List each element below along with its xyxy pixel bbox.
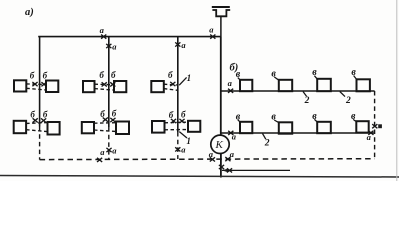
- svg-text:а: а: [228, 78, 233, 88]
- svg-text:б: б: [99, 70, 104, 80]
- junction x loop bottom start: [228, 131, 233, 135]
- hook lead B3: [314, 119, 317, 122]
- dashed wire row2 group3 upper: [165, 121, 189, 124]
- svg-text:а: а: [230, 149, 235, 159]
- bottom page rule: [0, 176, 399, 178]
- junction x row2 group1 right: [41, 118, 46, 122]
- junction x row1 group3: [170, 82, 175, 86]
- svg-text:а): а): [25, 7, 34, 18]
- detector row2 group1 left: [14, 121, 26, 133]
- top feed wire of part a: [38, 36, 221, 38]
- junction x on V3: [175, 42, 180, 46]
- dashed wire row2 group2 lower: [94, 130, 116, 132]
- svg-text:а: а: [100, 147, 105, 157]
- leader line to detector item 1: [179, 77, 186, 85]
- hook lead B2: [274, 120, 279, 123]
- svg-text:б: б: [43, 109, 48, 119]
- bell B1 top bar: [212, 6, 230, 8]
- dashed wire row2 group1 upper: [26, 122, 47, 125]
- right page edge scan line: [396, 0, 398, 181]
- loop detector B1: [240, 122, 252, 133]
- detector row2 group3 right: [188, 121, 200, 132]
- bell B1 cup body: [212, 10, 230, 16]
- svg-text:а: а: [209, 25, 214, 35]
- svg-text:2: 2: [304, 96, 310, 106]
- branch wire V1 dashed return: [39, 127, 41, 160]
- leader line to detector item 1 lower: [179, 132, 187, 138]
- dashed wire row2 group3 lower: [165, 129, 189, 131]
- detector row1 group1 left: [14, 80, 26, 91]
- leader slash wire 2 bottom: [263, 134, 266, 140]
- svg-text:1: 1: [187, 73, 192, 83]
- svg-text:а: а: [181, 40, 186, 50]
- svg-text:б: б: [112, 109, 117, 119]
- detector row2 group2 left: [82, 122, 94, 133]
- riser wire from bell to receiver K: [220, 37, 222, 136]
- loop bottom wire: [221, 132, 375, 134]
- loop detector B4: [356, 121, 368, 132]
- junction x on bottom return near V2: [97, 158, 102, 162]
- loop top wire: [222, 90, 375, 92]
- loop detector S2: [279, 80, 292, 91]
- bell B1 stem wire: [220, 16, 222, 36]
- branch wire V1 solid: [39, 37, 41, 127]
- dashed wire row1 group2 upper: [95, 83, 115, 86]
- junction x row2 group3 right: [179, 119, 184, 123]
- junction x row2 group2 right: [110, 118, 115, 122]
- svg-text:а: а: [367, 132, 372, 142]
- hook lead S1: [238, 78, 241, 81]
- dashed wire row1 group1 upper: [26, 83, 46, 86]
- loop detector S4: [357, 79, 370, 91]
- junction x on top wire near node a: [101, 35, 106, 39]
- receiver station K circle: [211, 135, 229, 153]
- junction x on wire below K: [219, 165, 224, 169]
- leader slash wire 2 top second: [340, 92, 345, 97]
- svg-text:б: б: [43, 70, 48, 80]
- bottom dashed return wire: [40, 158, 375, 161]
- junction x on V2 return: [106, 148, 111, 152]
- dashed wire row1 group2 lower: [95, 89, 115, 91]
- svg-text:К: К: [215, 139, 224, 151]
- svg-text:б: б: [168, 70, 173, 80]
- junction x loop bottom end: [368, 131, 373, 135]
- svg-text:а: а: [232, 132, 237, 142]
- branch wire V2 dashed return: [108, 127, 110, 159]
- junction x on right return: [372, 124, 377, 128]
- junction x row1 group1 right: [41, 82, 46, 86]
- hook lead S4: [354, 76, 357, 80]
- svg-text:б: б: [30, 70, 35, 80]
- junction x row1 group1 left: [32, 82, 37, 86]
- dashed wire row1 group1 lower: [26, 88, 46, 90]
- loop detector S3: [317, 79, 331, 91]
- branch wire V3 dashed return: [177, 132, 179, 159]
- junction x row1 group2 right: [110, 82, 115, 86]
- leader slash wire 2 top first: [303, 92, 307, 97]
- svg-text:а: а: [181, 145, 186, 155]
- junction x on arrow line: [227, 168, 232, 172]
- detector row1 group2 left: [83, 81, 95, 92]
- detector row1 group2 right: [114, 81, 126, 92]
- dashed wire row2 group2 upper: [94, 122, 116, 125]
- detector row2 group1 right: [48, 122, 60, 135]
- svg-text:2: 2: [264, 139, 270, 149]
- junction x on top wire at riser: [210, 35, 215, 39]
- hook lead B4: [353, 119, 356, 121]
- junction x on V2: [106, 44, 111, 48]
- dashed wire row2 group1 lower: [26, 130, 47, 132]
- svg-text:б: б: [169, 110, 174, 120]
- detector row2 group2 right: [116, 122, 129, 135]
- svg-text:б: б: [30, 109, 35, 119]
- loop detector B3: [317, 122, 331, 133]
- svg-text:б: б: [100, 109, 105, 119]
- junction x bottom return left of K: [210, 157, 215, 161]
- hook lead B1: [238, 120, 241, 122]
- detector row2 group3 left: [152, 121, 165, 133]
- hook lead S2: [274, 77, 279, 80]
- arrowhead pointing left at K wire: [222, 169, 228, 173]
- svg-text:1: 1: [186, 136, 191, 146]
- junction x row2 group3 left: [171, 119, 176, 123]
- dashed wire row1 group3 lower: [164, 89, 178, 91]
- junction x on V3 return: [175, 147, 180, 151]
- svg-text:а: а: [112, 145, 117, 155]
- loop right dashed return wire: [374, 91, 376, 159]
- wire below K to bottom edge: [220, 154, 222, 178]
- loop detector B2: [279, 122, 292, 133]
- junction x row2 group1 left: [33, 118, 38, 122]
- detector row1 group1 right: [46, 81, 58, 93]
- detector row1 group3 left: [151, 81, 164, 92]
- svg-text:а: а: [100, 25, 105, 35]
- junction x bottom return right of K: [225, 157, 230, 161]
- junction x row2 group2 left: [103, 118, 108, 122]
- junction x row1 group2 left: [102, 82, 107, 86]
- svg-text:б: б: [181, 109, 186, 119]
- junction x loop top start: [228, 89, 233, 93]
- svg-text:б: б: [111, 70, 116, 80]
- branch wire V2 solid: [108, 37, 110, 127]
- hook lead S3: [314, 76, 317, 79]
- branch wire V3 solid: [177, 37, 179, 132]
- svg-text:а: а: [112, 42, 117, 52]
- svg-text:2: 2: [345, 96, 351, 106]
- dashed wire row1 group3 upper: [164, 83, 178, 86]
- dimension arrow line at bottom: [222, 169, 290, 171]
- end-of-line element filled square: [378, 124, 382, 128]
- loop detector S1: [240, 80, 252, 91]
